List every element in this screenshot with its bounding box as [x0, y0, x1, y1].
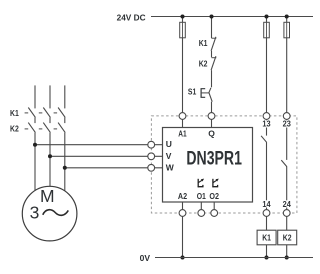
- svg-text:DN3PR1: DN3PR1: [186, 148, 242, 170]
- fuse F3: [284, 22, 290, 38]
- fuse F1: [180, 22, 186, 38]
- svg-text:M: M: [40, 186, 55, 206]
- terminal O1: [198, 210, 205, 217]
- three phase supply wire L1: [34, 85, 36, 108]
- terminal A1: [179, 113, 186, 120]
- contact K2 (NO, in Q column): [199, 56, 217, 70]
- three phase supply wire L2: [49, 85, 51, 108]
- node 24V DC rail: [117, 13, 313, 23]
- wire L1 to motor: [34, 133, 36, 191]
- label 24: [281, 199, 292, 209]
- wire S1 to terminal Q: [211, 102, 213, 113]
- junction dot rail 23: [285, 15, 289, 19]
- junction node L3/W: [63, 166, 67, 170]
- wire A1 terminal to box: [182, 119, 184, 127]
- svg-text:O2: O2: [209, 191, 219, 201]
- coil K2: [278, 230, 297, 245]
- wire coil K1 to 0V rail: [266, 245, 268, 258]
- wire contact to 14 terminal: [266, 142, 268, 210]
- wire L3 to motor: [64, 133, 66, 191]
- junction dot rail A1: [181, 15, 185, 19]
- svg-text:O1: O1: [197, 191, 206, 201]
- forced-guided contacts icon 1: [198, 179, 204, 188]
- wire A1 column from rail through fuse to A1: [182, 17, 184, 113]
- wire Q terminal to box: [211, 119, 213, 127]
- junction node L1/U: [33, 143, 37, 147]
- terminal A2: [179, 210, 186, 217]
- wire tap to W: [65, 167, 163, 169]
- junction dot rail 13: [265, 15, 269, 19]
- svg-text:24: 24: [283, 199, 291, 209]
- wire 13 terminal down to contact: [266, 119, 268, 135]
- switch S1 (manual actuator with bent blade): [188, 87, 212, 102]
- relay U1 dashed enclosure: [151, 116, 297, 213]
- fuse F2: [264, 22, 270, 38]
- svg-text:23: 23: [283, 119, 291, 129]
- wire coil K2 to 0V rail: [286, 245, 288, 258]
- svg-text:K1: K1: [199, 38, 208, 48]
- node 0V rail: [140, 253, 313, 263]
- wire O1 stub below box: [200, 202, 202, 210]
- svg-text:W: W: [166, 163, 175, 173]
- safety contact 23-24: [281, 160, 287, 167]
- svg-text:K2: K2: [283, 233, 292, 243]
- wire between K1 and K2: [211, 51, 213, 58]
- svg-text:K2: K2: [10, 124, 19, 134]
- motor M 3-phase: [22, 186, 77, 241]
- wire L1 between K1 and K2 rows: [34, 117, 36, 123]
- wire L3 between K1 and K2 rows: [64, 117, 66, 123]
- terminal 14: [263, 210, 270, 217]
- wire 23 column from rail through fuse: [286, 17, 288, 113]
- label 13: [261, 119, 272, 129]
- svg-text:K1: K1: [10, 108, 19, 118]
- wire between K2 and S1: [211, 70, 213, 87]
- wire L2 to motor: [49, 133, 51, 187]
- wire A2 to 0V rail: [182, 216, 184, 257]
- terminal V: [148, 153, 155, 160]
- wire 13 column from rail through fuse: [266, 17, 268, 113]
- svg-text:24V DC: 24V DC: [117, 13, 146, 23]
- terminal U: [148, 141, 155, 148]
- wire A2 stub below box: [182, 202, 184, 210]
- svg-text:14: 14: [262, 199, 270, 209]
- wire L2 between K1 and K2 rows: [49, 117, 51, 123]
- svg-text:0V: 0V: [140, 253, 151, 263]
- svg-text:3: 3: [30, 203, 40, 223]
- terminal W: [148, 164, 155, 171]
- svg-text:V: V: [166, 151, 172, 161]
- three phase supply wire L3: [64, 85, 66, 108]
- junction dot A2/0V: [181, 256, 185, 260]
- contact K1 (NO, in Q column): [199, 37, 217, 51]
- wire O2 stub below box: [213, 202, 215, 210]
- wire Q column upper segment: [211, 17, 213, 39]
- svg-text:Q: Q: [208, 128, 215, 138]
- svg-text:A2: A2: [178, 191, 187, 201]
- svg-text:K1: K1: [262, 233, 271, 243]
- forced-guided contacts icon 2: [212, 179, 218, 188]
- wire tap to V: [50, 155, 163, 157]
- svg-text:K2: K2: [199, 59, 208, 69]
- wire 23 terminal down to contact: [286, 119, 288, 160]
- junction dot K1/0V: [265, 256, 269, 260]
- junction dot rail Q: [210, 15, 214, 19]
- coil K1: [257, 230, 276, 245]
- terminal O2: [211, 210, 218, 217]
- terminal 13: [263, 113, 270, 120]
- wire tap to U: [35, 144, 163, 146]
- junction node L2/V: [48, 154, 52, 158]
- contactor K1 main contacts (3 pole): [10, 108, 65, 119]
- label 23: [281, 119, 292, 129]
- svg-text:13: 13: [262, 119, 270, 129]
- label 14: [261, 199, 272, 209]
- wire 14 to coil K1: [266, 216, 268, 230]
- terminal 24: [283, 210, 290, 217]
- svg-text:U: U: [166, 139, 172, 149]
- svg-text:A1: A1: [178, 128, 187, 138]
- safety contact 13-14: [261, 136, 267, 143]
- junction dot K2/0V: [285, 256, 289, 260]
- wire 24 to coil K2: [286, 216, 288, 230]
- terminal Q: [208, 113, 215, 120]
- terminal 23: [283, 113, 290, 120]
- svg-text:S1: S1: [188, 87, 197, 97]
- relay U1 body DN3PR1: [163, 128, 253, 203]
- wire contact to 24 terminal: [286, 166, 288, 209]
- contactor K2 main contacts (3 pole): [10, 123, 65, 134]
